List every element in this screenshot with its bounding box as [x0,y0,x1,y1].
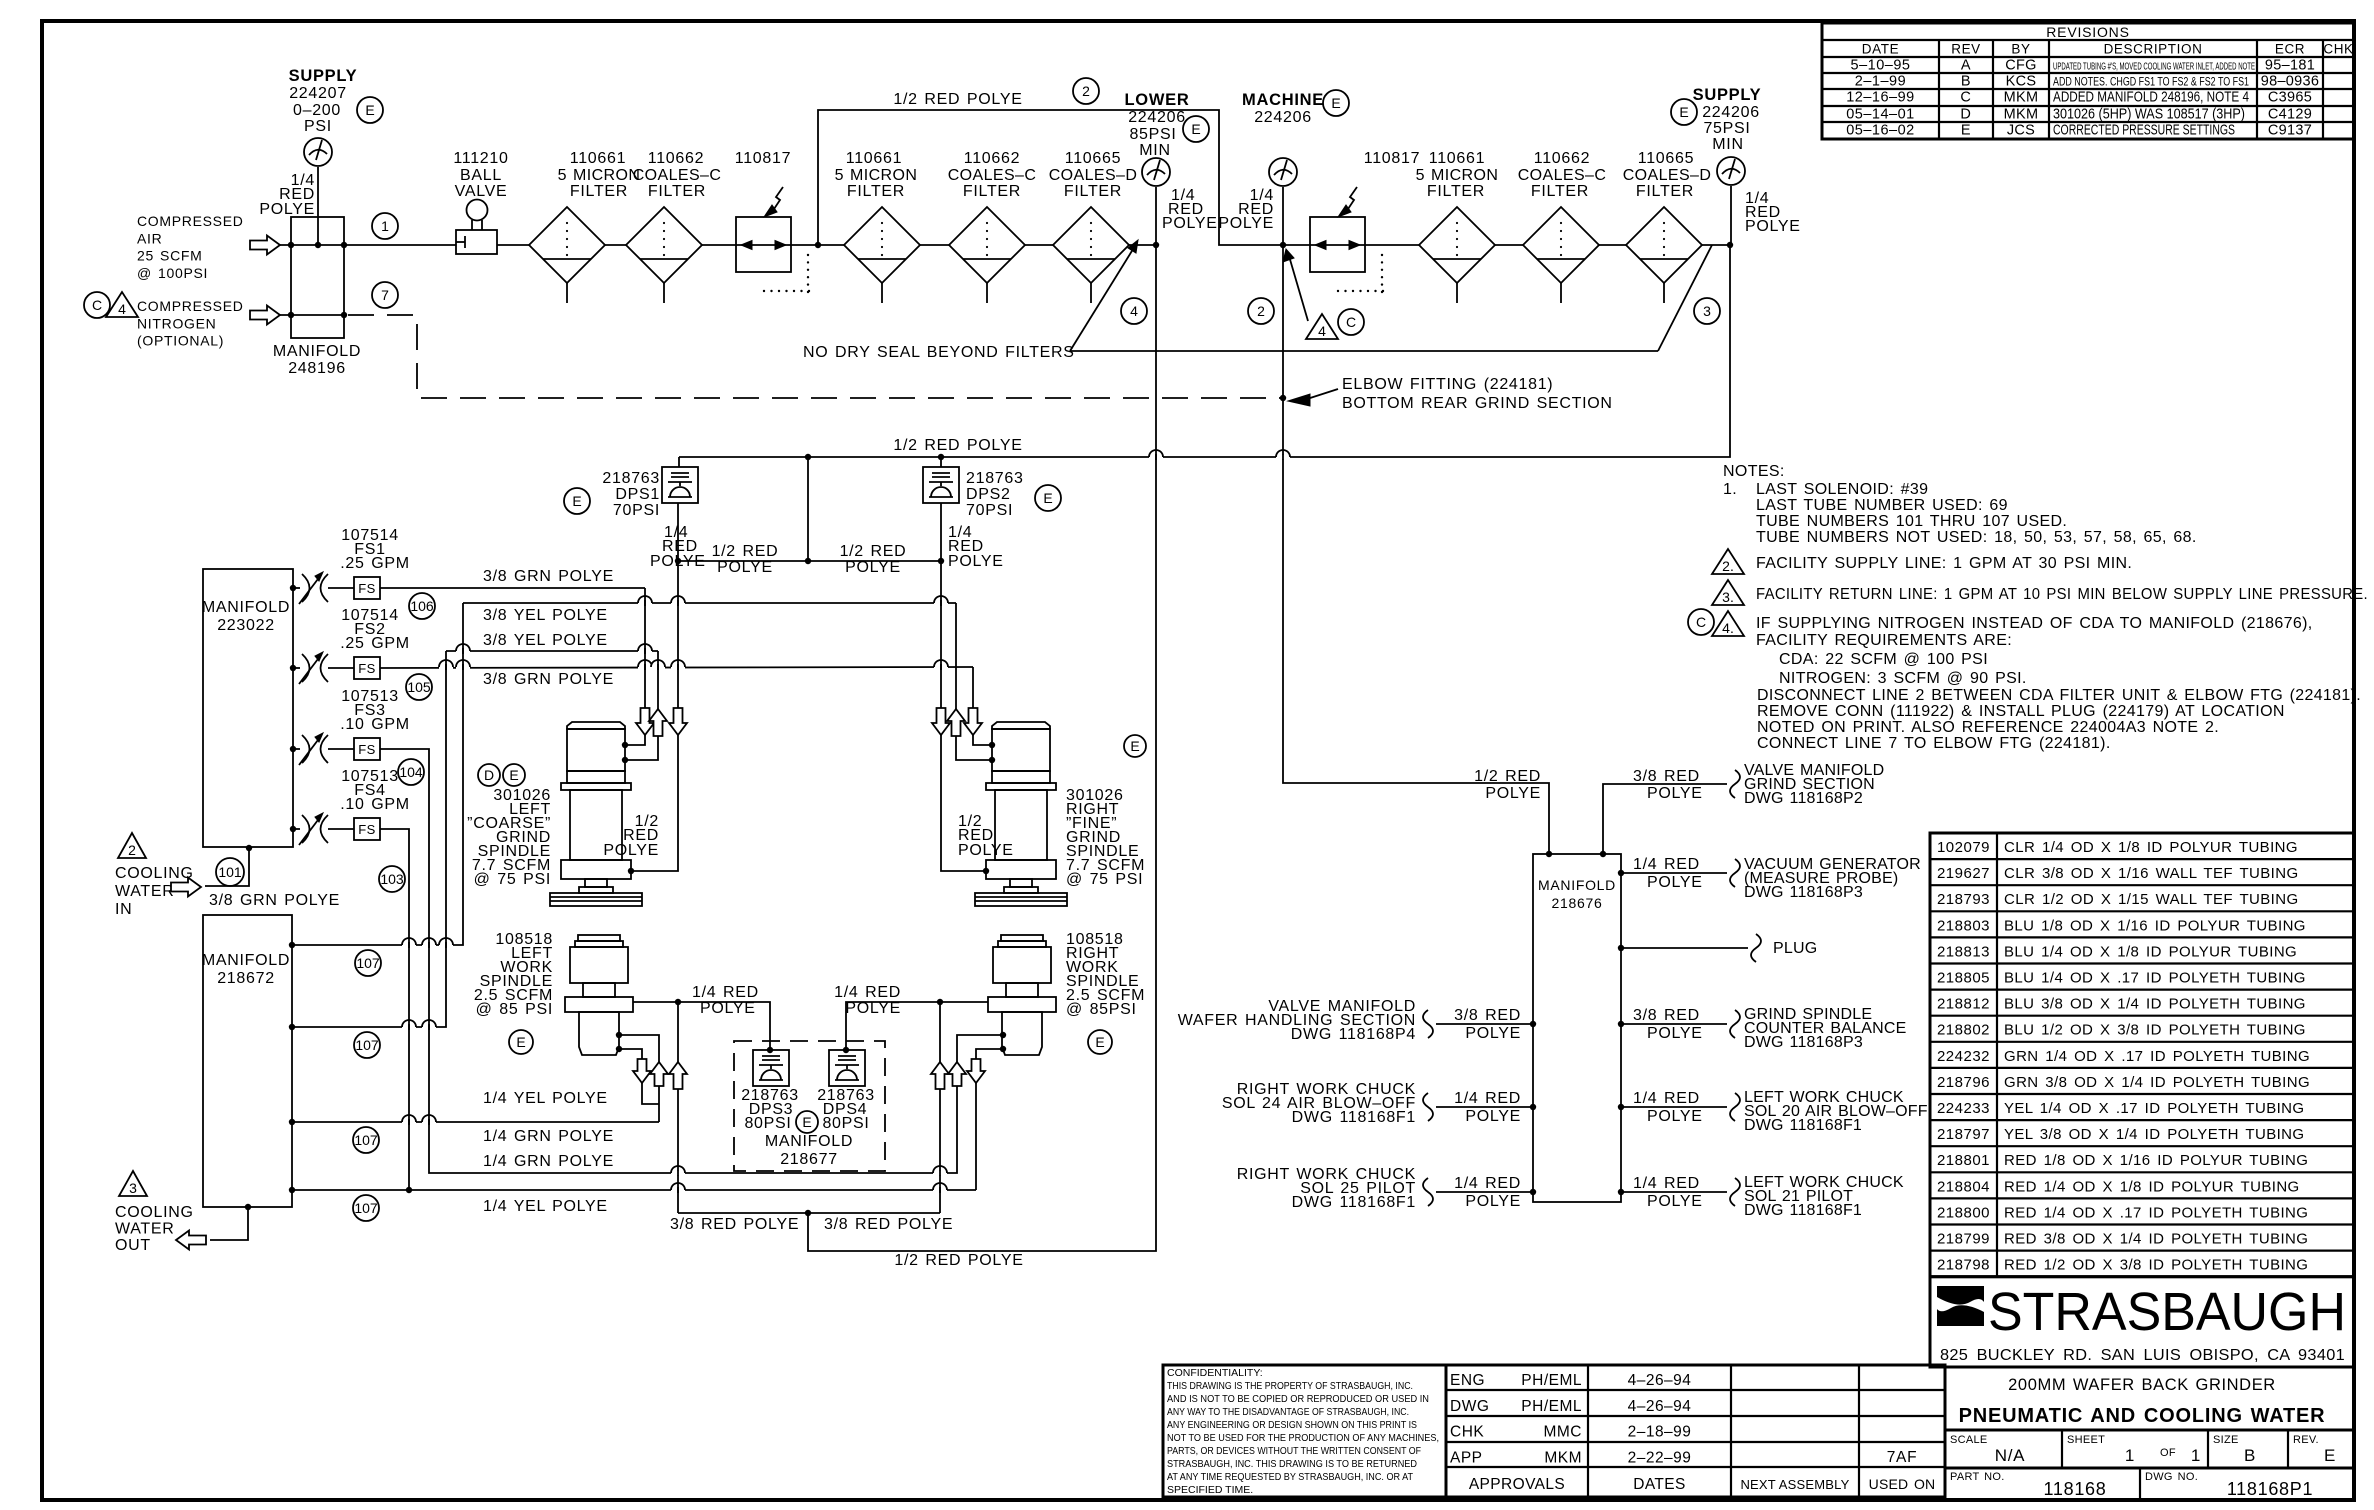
flag 4 machine [1306,314,1338,339]
svg-text:RED 1/4 OD X .17 ID POLY: RED 1/4 OD X .17 ID POLYETH TUBING [2004,1204,2308,1221]
svg-text:NOT TO BE USED FOR THE PRODUCT: NOT TO BE USED FOR THE PRODUCTION OF ANY… [1167,1432,1439,1444]
svg-text:WATER: WATER [115,1221,175,1238]
svg-text:D: D [484,767,494,783]
flag E DPS2 [1035,485,1061,511]
approvals table [1446,1365,1945,1497]
filter 110662 group1b [949,207,1025,283]
wire nitrogen dashed to elbow [348,315,1283,398]
svg-text:OF: OF [2160,1447,2176,1459]
gauge machine 224206 [1269,158,1297,186]
svg-text:N/A: N/A [1995,1446,2025,1465]
wire FS2 green supply to right grind spindle [380,667,973,668]
svg-text:@ 100PSI: @ 100PSI [137,265,208,281]
svg-text:218804: 218804 [1937,1178,1990,1195]
svg-text:ECR: ECR [2275,42,2305,57]
svg-text:MKM: MKM [2004,107,2039,123]
line number 3 [1694,298,1720,324]
svg-text:5–10–95: 5–10–95 [1851,58,1911,74]
svg-text:1/4 RED: 1/4 RED [1454,1090,1521,1107]
svg-text:FS: FS [358,742,376,757]
pointer elbow fitting [1307,389,1338,399]
svg-text:PLUG: PLUG [1773,940,1817,957]
svg-text:218796: 218796 [1937,1074,1990,1091]
svg-text:@ 85PSI: @ 85PSI [1066,1001,1137,1018]
ball valve 111210 [456,230,497,254]
svg-text:110817: 110817 [735,150,791,167]
line number 103 [379,866,405,892]
svg-text:5 MICRON: 5 MICRON [558,167,641,184]
svg-text:IF SUPPLYING NITROGEN INSTE: IF SUPPLYING NITROGEN INSTEAD OF CDA TO … [1756,615,2313,632]
svg-text:MANIFOLD: MANIFOLD [202,599,290,616]
svg-text:107: 107 [354,1132,378,1148]
svg-text:A: A [1961,58,1971,74]
wire 1/4 red left work chuck sol20 [1618,1104,1624,1110]
svg-text:D: D [1960,107,1971,123]
svg-text:5 MICRON: 5 MICRON [1416,167,1499,184]
svg-text:NO DRY SEAL BEYOND FILTERS: NO DRY SEAL BEYOND FILTERS [803,344,1075,361]
wire half-red cross line DPS1-DPS2 [678,560,941,562]
svg-text:101: 101 [218,864,242,880]
svg-text:ADD NOTES. CHGD FS1 TO FS2 & F: ADD NOTES. CHGD FS1 TO FS2 & FS2 TO FS1 [2053,75,2249,89]
svg-text:DESCRIPTION: DESCRIPTION [2104,42,2203,57]
svg-text:POLYE: POLYE [1647,785,1703,802]
svg-text:POLYE: POLYE [1162,215,1218,232]
svg-text:1/4 RED: 1/4 RED [1633,1090,1700,1107]
wire filter1-filter2 [605,244,626,246]
flag E DPS34 [796,1111,818,1133]
svg-text:COMPRESSED: COMPRESSED [137,298,244,314]
arrow compressed air input [250,236,280,255]
svg-text:SPECIFIED TIME.: SPECIFIED TIME. [1167,1484,1253,1496]
arrow nitrogen input [250,306,280,325]
svg-text:1/2 RED POLYE: 1/2 RED POLYE [893,437,1022,454]
svg-text:CHK: CHK [1450,1424,1484,1441]
filter 110662 group1 [626,207,702,283]
svg-text:COOLING: COOLING [115,865,194,882]
svg-text:218813: 218813 [1937,943,1990,960]
svg-text:ANY ENGINEERING OR DESIGN SHOW: ANY ENGINEERING OR DESIGN SHOWN ON THIS … [1167,1419,1417,1431]
pressure switch DPS3 218763 [753,1050,789,1086]
svg-text:WATER: WATER [115,883,175,900]
line number 107 [354,1032,380,1058]
svg-text:POLYE: POLYE [603,842,659,859]
svg-text:3: 3 [1703,303,1711,319]
svg-text:3/8 GRN POLYE: 3/8 GRN POLYE [483,671,614,688]
svg-text:MANIFOLD: MANIFOLD [765,1133,853,1150]
svg-text:107: 107 [355,1037,379,1053]
wire DPS1 stem [677,503,679,561]
svg-text:B: B [2244,1446,2256,1465]
manifold 218672 port [289,1187,295,1193]
manifold 223022 [203,569,293,847]
svg-text:118168P1: 118168P1 [2227,1479,2313,1499]
flow switch FS4 107513 [290,826,296,832]
svg-text:RED 1/8 OD X 1/16 ID POL: RED 1/8 OD X 1/16 ID POLYUR TUBING [2004,1152,2308,1169]
confidentiality box [1163,1365,1446,1497]
svg-text:BLU 1/4 OD X 1/8 ID POLY: BLU 1/4 OD X 1/8 ID POLYUR TUBING [2004,943,2297,960]
svg-text:1/4 GRN POLYE: 1/4 GRN POLYE [483,1128,614,1145]
line number 107 [353,1195,379,1221]
svg-text:BLU 1/8 OD X 1/16 ID POL: BLU 1/8 OD X 1/16 ID POLYUR TUBING [2004,917,2306,934]
svg-text:3/8 YEL POLYE: 3/8 YEL POLYE [483,607,608,624]
wire DPS2 stem [940,503,942,561]
wire 1/4 red right work chuck sol25 [1530,1189,1536,1195]
wire ball valve to filters [497,244,529,246]
svg-text:DWG 118168F1: DWG 118168F1 [1292,1109,1416,1126]
svg-text:COALES–C: COALES–C [948,167,1037,184]
wire return row1 to right grind via x463 [292,603,463,945]
svg-text:1/2 RED POLYE: 1/2 RED POLYE [894,1252,1023,1269]
svg-text:218677: 218677 [780,1151,838,1168]
svg-text:218763: 218763 [966,470,1024,487]
flag E right work [1088,1030,1112,1054]
svg-text:CFG: CFG [2005,58,2037,74]
svg-text:1/4 GRN POLYE: 1/4 GRN POLYE [483,1153,614,1170]
svg-text:CONNECT LINE 7 TO ELBOW F: CONNECT LINE 7 TO ELBOW FTG (224181). [1757,735,2111,752]
svg-text:5 MICRON: 5 MICRON [835,167,918,184]
svg-text:2–22–99: 2–22–99 [1628,1449,1692,1466]
svg-text:DWG: DWG [1450,1398,1489,1415]
filter 110662 group2 [1523,207,1599,283]
svg-text:1/4 RED: 1/4 RED [692,984,759,1001]
svg-text:223022: 223022 [217,617,275,634]
wire half red from 3/8 junction to lower riser [808,245,1156,1251]
note flag C4 [1688,609,1714,635]
svg-text:MKM: MKM [1544,1449,1582,1466]
svg-text:PART NO.: PART NO. [1950,1471,2005,1483]
svg-text:110661: 110661 [570,150,626,167]
wire FS1 green supply [380,587,645,589]
svg-text:4: 4 [1318,323,1326,339]
svg-text:MIN: MIN [1712,136,1743,153]
filter 110665 group1b [1053,207,1129,283]
svg-text:218805: 218805 [1937,970,1990,987]
svg-text:IN: IN [115,901,132,918]
svg-text:224232: 224232 [1937,1048,1990,1065]
svg-text:PSI: PSI [304,118,332,135]
svg-text:CONFIDENTIALITY:: CONFIDENTIALITY: [1167,1367,1263,1379]
svg-text:3.: 3. [1722,589,1734,605]
wire line2 riser and top run [818,110,1282,245]
wire no-dry-seal bracket [1070,350,1658,352]
svg-text:85PSI: 85PSI [1129,126,1176,143]
flow switch FS3 107513 [290,746,296,752]
wire left work dot2 down arrow [619,1049,642,1059]
svg-text:825 BUCKLEY RD. SAN LUIS: 825 BUCKLEY RD. SAN LUIS OBISPO, CA 9340… [1940,1347,2345,1364]
svg-text:POLYE: POLYE [1465,1025,1521,1042]
pressure switch DPS1 218763 [662,467,698,503]
svg-text:4: 4 [1130,303,1138,319]
svg-text:POLYE: POLYE [845,559,901,576]
manifold 218676 [1533,854,1621,1202]
filter 110661 group1 [529,207,605,283]
svg-text:NEXT ASSEMBLY: NEXT ASSEMBLY [1740,1477,1849,1492]
flag C nitrogen [84,292,110,318]
svg-text:FILTER: FILTER [847,183,905,200]
svg-text:FILTER: FILTER [648,183,706,200]
svg-text:12–16–99: 12–16–99 [1846,90,1915,106]
scale sheet size rev row [1945,1430,2354,1468]
svg-text:@ 85 PSI: @ 85 PSI [476,1001,553,1018]
svg-text:POLYE: POLYE [1485,785,1541,802]
svg-text:110817: 110817 [1364,150,1420,167]
svg-text:ANY WAY TO THE DISADVANTAGE OF: ANY WAY TO THE DISADVANTAGE OF STRASBAUG… [1167,1406,1409,1418]
svg-text:1: 1 [381,218,389,234]
svg-text:LOWER: LOWER [1125,91,1190,109]
svg-text:MACHINE: MACHINE [1242,91,1324,109]
tubing table [1930,833,2354,1277]
svg-text:@ 75 PSI: @ 75 PSI [1066,871,1143,888]
svg-text:CLR 1/4 OD X 1/8 ID POLY: CLR 1/4 OD X 1/8 ID POLYUR TUBING [2004,839,2298,856]
svg-text:1/4 RED: 1/4 RED [834,984,901,1001]
manifold 218672 port [289,1119,295,1125]
svg-text:2–1–99: 2–1–99 [1855,74,1906,90]
wire left work air through-line [677,1002,679,1062]
wire machine junction to regulator2 [1283,244,1310,246]
title text [1945,1367,2354,1430]
wire left work to DPS manifold line [633,1001,678,1003]
flow switch FS2 107514 [290,665,296,671]
svg-text:CDA: 22 SCFM @ 100 PSI: CDA: 22 SCFM @ 100 PSI [1779,651,1988,668]
svg-text:DISCONNECT LINE 2 BETWEEN: DISCONNECT LINE 2 BETWEEN CDA FILTER UNI… [1757,687,2361,704]
svg-text:4: 4 [118,301,126,317]
line number 2 mid [1248,298,1274,324]
svg-text:DWG 118168F1: DWG 118168F1 [1744,1117,1862,1134]
svg-text:OUT: OUT [115,1237,151,1254]
svg-text:C9137: C9137 [2268,123,2312,139]
pressure switch DPS2 218763 [923,467,959,503]
svg-text:2–18–99: 2–18–99 [1628,1424,1692,1441]
svg-text:111210: 111210 [453,150,508,167]
svg-text:E: E [1679,104,1688,120]
svg-text:AT ANY TIME REQUESTED BY STRAS: AT ANY TIME REQUESTED BY STRASBAUGH, INC… [1167,1471,1414,1483]
wire gauge to manifold [317,167,319,245]
svg-text:POLYE: POLYE [1647,874,1703,891]
wire right work to DPS manifold line [940,1001,988,1003]
svg-text:DWG 118168P2: DWG 118168P2 [1744,790,1863,807]
svg-text:218798: 218798 [1937,1257,1990,1274]
svg-text:BLU 1/4 OD X .17 ID POLY: BLU 1/4 OD X .17 ID POLYETH TUBING [2004,970,2306,987]
svg-text:224206: 224206 [1702,104,1760,121]
svg-text:POLYE: POLYE [1218,215,1274,232]
svg-text:3/8 YEL POLYE: 3/8 YEL POLYE [483,632,608,649]
svg-text:NOTED ON PRINT. ALSO REFE: NOTED ON PRINT. ALSO REFERENCE 224004A3 … [1757,719,2219,736]
line number 107 [355,950,381,976]
svg-text:FACILITY SUPPLY LINE: 1 G: FACILITY SUPPLY LINE: 1 GPM AT 30 PSI MI… [1756,555,2132,572]
svg-text:DPS2: DPS2 [966,486,1011,503]
svg-text:3/8 GRN POLYE: 3/8 GRN POLYE [483,568,614,585]
svg-text:BY: BY [2011,42,2030,57]
svg-text:1/4 YEL POLYE: 1/4 YEL POLYE [483,1198,608,1215]
svg-text:CORRECTED PRESSURE SETTINGS: CORRECTED PRESSURE SETTINGS [2053,123,2235,139]
pressure switch DPS4 218763 [829,1050,865,1086]
svg-text:C4129: C4129 [2268,107,2312,123]
svg-text:7AF: 7AF [1887,1449,1918,1466]
wire nitrogen line [280,314,344,316]
note flag 3 [1712,580,1744,605]
svg-text:AND IS NOT TO BE COPIED OR REP: AND IS NOT TO BE COPIED OR REPRODUCED OR… [1167,1393,1429,1405]
svg-text:DWG NO.: DWG NO. [2145,1471,2198,1483]
svg-text:RED 3/8 OD X 1/4 ID POLY: RED 3/8 OD X 1/4 ID POLYETH TUBING [2004,1231,2308,1248]
svg-text:THIS DRAWING IS THE PROPERTY O: THIS DRAWING IS THE PROPERTY OF STRASBAU… [1167,1380,1413,1392]
note flag 2 [1712,549,1744,574]
svg-text:FACILITY REQUIREMENTS ARE:: FACILITY REQUIREMENTS ARE: [1756,632,2012,649]
svg-text:.10 GPM: .10 GPM [340,716,410,733]
svg-text:E: E [1191,121,1200,137]
svg-text:COALES–D: COALES–D [1623,167,1712,184]
svg-text:COALES–C: COALES–C [633,167,722,184]
strasbaugh logo glyph [1937,1286,1984,1326]
svg-text:1: 1 [2191,1446,2201,1465]
manifold 218672 port [289,942,295,948]
svg-text:GRN 3/8 OD X 1/4 ID POLY: GRN 3/8 OD X 1/4 ID POLYETH TUBING [2004,1074,2310,1091]
svg-text:DATE: DATE [1862,42,1899,57]
part no dwg no row [1945,1468,2354,1500]
svg-text:POLYE: POLYE [958,842,1014,859]
svg-text:.25 GPM: .25 GPM [340,555,410,572]
svg-text:DWG 118168P3: DWG 118168P3 [1744,884,1863,901]
svg-text:CLR 3/8 OD X 1/16 WALL T: CLR 3/8 OD X 1/16 WALL TEF TUBING [2004,865,2299,882]
svg-text:C: C [1696,614,1706,630]
svg-text:05–14–01: 05–14–01 [1846,107,1915,123]
svg-text:PH/EML: PH/EML [1521,1398,1582,1415]
grind spindle right fine 301026 [992,722,1050,729]
flag E right grind [1124,735,1146,757]
svg-text:POLYE: POLYE [1647,1193,1703,1210]
svg-text:FILTER: FILTER [1636,183,1694,200]
svg-text:70PSI: 70PSI [613,502,660,519]
gauge lower 224206 [1142,158,1170,186]
svg-text:NITROGEN: NITROGEN [137,315,217,331]
svg-text:248196: 248196 [288,360,346,377]
wire filter2 to regulator [702,244,736,246]
wire left grind air supply half red [677,561,679,708]
svg-text:0–200: 0–200 [293,102,341,119]
svg-text:1/4 RED: 1/4 RED [1633,1175,1700,1192]
regulator 110817 group1 [736,217,791,272]
svg-text:2: 2 [1257,303,1265,319]
svg-text:224206: 224206 [1254,109,1312,126]
flow switch FS1 107514 [290,585,296,591]
svg-text:YEL 3/8 OD X 1/4 ID POLY: YEL 3/8 OD X 1/4 ID POLYETH TUBING [2004,1126,2304,1143]
svg-text:COALES–C: COALES–C [1518,167,1607,184]
svg-text:E: E [1331,95,1340,111]
wire yellow return left grind [446,650,658,652]
svg-text:APP: APP [1450,1449,1483,1466]
svg-text:(OPTIONAL): (OPTIONAL) [137,333,224,349]
svg-text:104: 104 [399,764,423,780]
strasbaugh logo box [1930,1277,2354,1367]
svg-text:1/2 RED: 1/2 RED [840,543,907,560]
line number 107 [353,1127,379,1153]
svg-text:POLYE: POLYE [948,553,1004,570]
svg-text:218793: 218793 [1937,891,1990,908]
svg-text:3/8 RED: 3/8 RED [1454,1007,1521,1024]
svg-text:103: 103 [380,871,404,887]
svg-text:POLYE: POLYE [1647,1108,1703,1125]
svg-text:STRASBAUGH, INC. THIS DRAWING: STRASBAUGH, INC. THIS DRAWING IS TO BE R… [1167,1458,1417,1470]
svg-text:MKM: MKM [2004,90,2039,106]
pointer 4C to machine junction [1289,256,1308,321]
svg-text:LAST TUBE NUMBER USED: 69: LAST TUBE NUMBER USED: 69 [1756,497,2008,514]
svg-text:YEL 1/4 OD X .17 ID POLY: YEL 1/4 OD X .17 ID POLYETH TUBING [2004,1100,2304,1117]
wire yellow return row3 left work spindle [292,1121,659,1123]
svg-text:KCS: KCS [2006,74,2037,90]
svg-text:2: 2 [1082,83,1090,99]
svg-text:80PSI: 80PSI [822,1115,869,1132]
wire filter to lower junction [1129,244,1156,246]
svg-text:STRASBAUGH: STRASBAUGH [1988,1282,2346,1342]
wire filter3 to supply junction [1702,244,1730,246]
svg-text:224233: 224233 [1937,1100,1990,1117]
svg-text:224207: 224207 [289,85,347,102]
svg-text:.10 GPM: .10 GPM [340,796,410,813]
svg-text:REVISIONS: REVISIONS [2046,24,2129,40]
svg-text:COOLING: COOLING [115,1204,194,1221]
svg-text:107: 107 [354,1200,378,1216]
svg-text:25 SCFM: 25 SCFM [137,248,203,264]
svg-text:DPS1: DPS1 [615,486,660,503]
line number 104 [398,759,424,785]
svg-text:MANIFOLD: MANIFOLD [273,343,361,360]
svg-text:1/4 YEL POLYE: 1/4 YEL POLYE [483,1090,608,1107]
flag E lower gauge [1183,116,1209,142]
svg-text:E: E [516,1034,525,1050]
svg-text:PNEUMATIC AND COOLING WATER: PNEUMATIC AND COOLING WATER [1959,1405,2326,1427]
svg-text:BLU 3/8 OD X 1/4 ID POLY: BLU 3/8 OD X 1/4 ID POLYETH TUBING [2004,996,2306,1013]
svg-text:APPROVALS: APPROVALS [1469,1476,1565,1493]
wire return row4 / FS4 supply to right work spindle [292,1189,976,1191]
manifold 218672 port [289,1024,295,1030]
line number 7 [372,282,398,308]
wire FS1 down arrow into left grind [644,588,646,708]
svg-text:218800: 218800 [1937,1204,1990,1221]
svg-text:2.: 2. [1722,558,1734,574]
gauge supply 224207 [304,138,332,166]
svg-text:106: 106 [410,598,434,614]
svg-text:COALES–D: COALES–D [1049,167,1138,184]
wire half-red distribution y457 [679,245,1730,457]
svg-text:110661: 110661 [846,150,902,167]
svg-text:107: 107 [356,955,380,971]
svg-text:@ 75 PSI: @ 75 PSI [474,871,551,888]
svg-text:1/2 RED: 1/2 RED [1474,768,1541,785]
svg-text:ENG: ENG [1450,1372,1485,1389]
svg-text:COMPRESSED: COMPRESSED [137,213,244,229]
svg-text:FACILITY RETURN LINE: 1 G: FACILITY RETURN LINE: 1 GPM AT 10 PSI MI… [1756,586,2368,603]
svg-text:E: E [1095,1034,1104,1050]
flag D left grind [478,764,500,786]
svg-text:75PSI: 75PSI [1703,120,1750,137]
svg-text:218676: 218676 [1552,895,1603,911]
svg-text:301026 (5HP) WAS 108517 (3HP): 301026 (5HP) WAS 108517 (3HP) [2053,107,2245,123]
svg-text:200MM WAFER BACK GRINDER: 200MM WAFER BACK GRINDER [2008,1376,2276,1394]
svg-text:MANIFOLD: MANIFOLD [202,952,290,969]
svg-text:MMC: MMC [1543,1424,1582,1441]
svg-text:VALVE: VALVE [455,183,508,200]
svg-text:SHEET: SHEET [2067,1434,2105,1446]
svg-text:80PSI: 80PSI [744,1115,791,1132]
svg-text:MIN: MIN [1139,142,1170,159]
wire 1/4 red to vacuum generator [1618,870,1624,876]
svg-text:218803: 218803 [1937,917,1990,934]
wire left work return dot1 riser [619,1035,659,1062]
line number 105 [406,674,432,700]
svg-text:.25 GPM: .25 GPM [340,635,410,652]
svg-text:POLYE: POLYE [717,559,773,576]
wire FS2 down arrow into right grind [972,667,974,708]
flag E DPS1 [564,488,590,514]
